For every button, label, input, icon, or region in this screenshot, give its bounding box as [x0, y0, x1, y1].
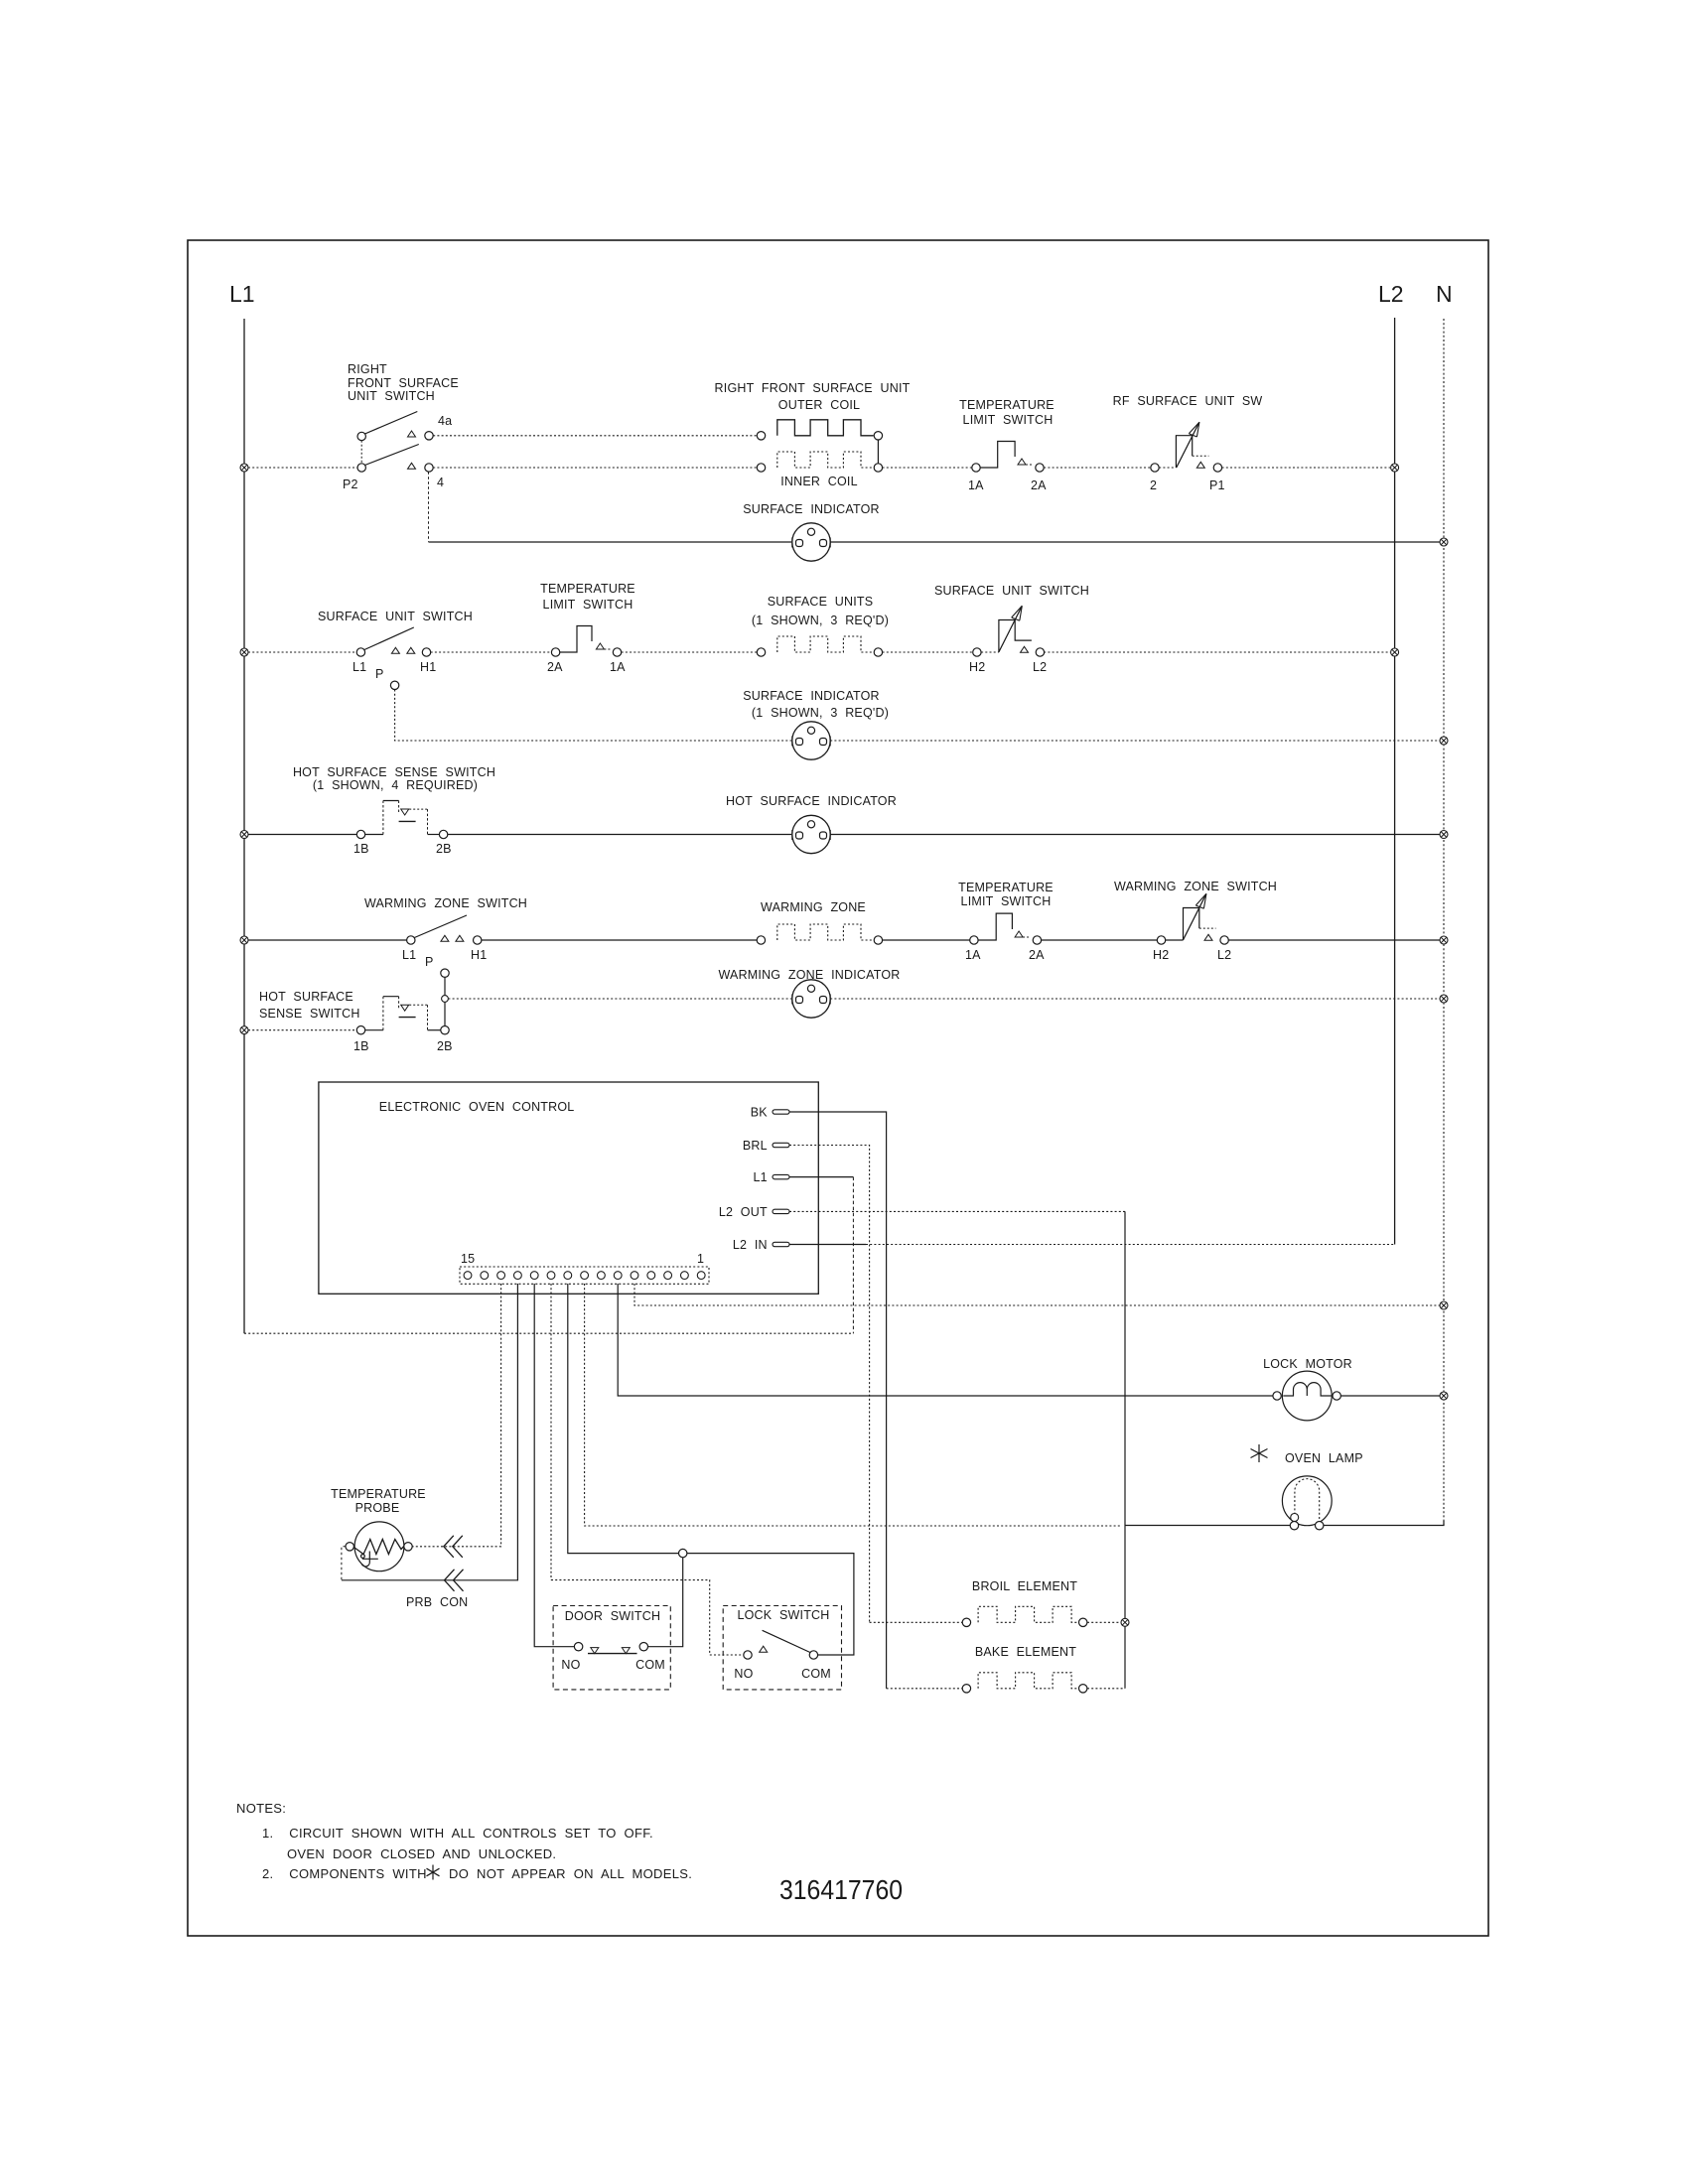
wire probe left leg: [342, 1547, 346, 1580]
svg-text:P: P: [375, 667, 384, 681]
symbol asterisk oven lamp: [1251, 1444, 1268, 1462]
junction N ind1: [1440, 538, 1448, 546]
wire BK net: [789, 1112, 887, 1689]
wire 2B to hot surface indicator: [448, 834, 791, 836]
wire H1 to warming zone coil: [482, 939, 757, 941]
svg-text:BK: BK: [751, 1106, 769, 1120]
svg-text:(1 SHOWN, 3 REQ'D): (1 SHOWN, 3 REQ'D): [752, 614, 889, 627]
svg-text:COM: COM: [801, 1667, 831, 1681]
switch temperature limit switch row2: [551, 626, 621, 657]
wire 4a to outer coil: [433, 435, 757, 437]
svg-text:RIGHT FRONT SURFACE UNIT: RIGHT FRONT SURFACE UNIT: [715, 381, 911, 395]
switch surface unit switch row2 left: [356, 627, 431, 690]
svg-text:FRONT SURFACE: FRONT SURFACE: [348, 376, 459, 390]
symbol asterisk note: [427, 1865, 440, 1880]
wire L1 bus elbow to EOC: [244, 1332, 853, 1334]
svg-text:N: N: [1436, 281, 1453, 307]
wire pin11 to temperature probe: [413, 1284, 501, 1547]
box electronic oven control: [319, 1082, 818, 1294]
switch lock switch: [744, 1630, 818, 1659]
svg-text:L2: L2: [1217, 948, 1231, 962]
svg-text:OVEN LAMP: OVEN LAMP: [1285, 1451, 1363, 1465]
connector strip P15: [460, 1267, 709, 1284]
svg-text:LIMIT SWITCH: LIMIT SWITCH: [961, 894, 1052, 908]
svg-text:TEMPERATURE: TEMPERATURE: [959, 398, 1055, 412]
svg-text:PROBE: PROBE: [355, 1501, 400, 1515]
junction N lock motor: [1440, 1392, 1448, 1400]
svg-text:H2: H2: [969, 660, 985, 674]
svg-text:WARMING ZONE: WARMING ZONE: [761, 900, 866, 914]
wire L1 bus: [243, 319, 245, 1333]
switch hot surface sense switch row5: [356, 997, 449, 1034]
wire L1 to 1B row5: [248, 1029, 356, 1031]
svg-text:1B: 1B: [353, 842, 369, 856]
svg-text:H1: H1: [471, 948, 487, 962]
svg-text:SURFACE INDICATOR: SURFACE INDICATOR: [743, 689, 880, 703]
svg-text:2A: 2A: [1029, 948, 1045, 962]
switch temperature limit switch row4: [970, 913, 1042, 944]
junction broil to L2 OUT: [1121, 1618, 1129, 1626]
svg-text:LOCK MOTOR: LOCK MOTOR: [1263, 1357, 1352, 1371]
svg-text:P2: P2: [343, 478, 358, 491]
svg-text:PRB CON: PRB CON: [406, 1595, 468, 1609]
svg-text:WARMING ZONE SWITCH: WARMING ZONE SWITCH: [1114, 880, 1277, 893]
svg-text:316417760: 316417760: [779, 1874, 903, 1905]
svg-text:L1: L1: [352, 660, 366, 674]
svg-text:TEMPERATURE: TEMPERATURE: [958, 881, 1054, 894]
wire inner coil to 1A: [883, 467, 972, 469]
lamp oven lamp: [1282, 1476, 1332, 1530]
wire oven lamp row left segment: [1125, 1525, 1290, 1527]
svg-text:OUTER COIL: OUTER COIL: [778, 398, 860, 412]
svg-text:SENSE SWITCH: SENSE SWITCH: [259, 1007, 360, 1021]
svg-text:UNIT SWITCH: UNIT SWITCH: [348, 389, 435, 403]
switch warming zone switch left: [407, 915, 482, 977]
svg-text:OVEN DOOR CLOSED AND UNLOCKED.: OVEN DOOR CLOSED AND UNLOCKED.: [287, 1846, 556, 1861]
svg-text:1: 1: [697, 1252, 704, 1266]
svg-text:L1: L1: [402, 948, 416, 962]
junction N row3: [1440, 831, 1448, 839]
svg-text:2B: 2B: [437, 1039, 453, 1053]
heater inner coil: [757, 464, 765, 472]
svg-text:HOT SURFACE: HOT SURFACE: [259, 990, 353, 1004]
heater broil element: [870, 1606, 1121, 1626]
junction L1 row1: [240, 464, 248, 472]
wire coil to 1A row4: [883, 939, 970, 941]
svg-text:SURFACE UNIT SWITCH: SURFACE UNIT SWITCH: [318, 610, 473, 623]
junction L2 row1: [1391, 464, 1399, 472]
wire pin13 to door switch NO: [534, 1284, 574, 1647]
svg-text:H2: H2: [1153, 948, 1169, 962]
switch door switch: [574, 1643, 647, 1654]
wire oven lamp row right to N corner: [1324, 1521, 1444, 1526]
svg-text:4: 4: [437, 476, 444, 489]
svg-text:DO NOT APPEAR ON ALL MODELS.: DO NOT APPEAR ON ALL MODELS.: [449, 1866, 692, 1881]
lamp surface indicator row1: [792, 523, 830, 561]
svg-text:2A: 2A: [547, 660, 563, 674]
svg-text:L2: L2: [1378, 281, 1404, 307]
wire L2 OUT net: [789, 1210, 1125, 1212]
svg-text:1B: 1B: [353, 1039, 369, 1053]
wire P to surface indicator row2: [395, 690, 791, 742]
wire 4 to inner coil: [433, 467, 757, 469]
motor lock motor: [1273, 1371, 1341, 1421]
border frame: [188, 240, 1488, 1936]
junction N ind2: [1440, 737, 1448, 745]
junction L1 row4: [240, 936, 248, 944]
wire coil to H2 row2: [883, 651, 973, 653]
svg-text:NO: NO: [734, 1667, 753, 1681]
wire N bus: [1443, 319, 1445, 1525]
wire coil join vertical: [877, 440, 879, 464]
svg-text:RIGHT: RIGHT: [348, 362, 387, 376]
svg-text:SURFACE UNITS: SURFACE UNITS: [768, 595, 874, 609]
junction warming zone indicator tap: [442, 996, 449, 1003]
wire BRL net: [789, 1146, 870, 1623]
svg-text:SURFACE UNIT SWITCH: SURFACE UNIT SWITCH: [934, 584, 1089, 598]
wire L1 to S1 P2: [248, 467, 357, 469]
svg-text:LOCK SWITCH: LOCK SWITCH: [737, 1608, 829, 1622]
switch warming zone switch right: [1157, 893, 1228, 944]
junction N ind4: [1440, 995, 1448, 1003]
connector PRB CON lower chevrons: [445, 1570, 464, 1591]
svg-text:NOTES:: NOTES:: [236, 1801, 286, 1816]
wire surface indicator row2 to N: [830, 740, 1440, 742]
svg-text:L1: L1: [229, 281, 255, 307]
switch surface unit switch row2 right: [973, 606, 1045, 656]
heater outer coil: [757, 432, 765, 440]
lamp hot surface indicator: [792, 815, 830, 853]
svg-text:2. COMPONENTS WITH: 2. COMPONENTS WITH: [262, 1866, 427, 1881]
svg-text:SURFACE INDICATOR: SURFACE INDICATOR: [743, 502, 880, 516]
wire pin9 to COM common: [568, 1284, 854, 1655]
svg-text:COM: COM: [635, 1658, 665, 1672]
svg-text:BROIL ELEMENT: BROIL ELEMENT: [972, 1579, 1077, 1593]
svg-text:RF SURFACE UNIT SW: RF SURFACE UNIT SW: [1113, 394, 1263, 408]
svg-text:1A: 1A: [965, 948, 981, 962]
svg-text:2B: 2B: [436, 842, 452, 856]
lamp surface indicator row2: [792, 722, 830, 759]
wire pin12 to probe return: [342, 1284, 518, 1580]
svg-text:L2: L2: [1033, 660, 1047, 674]
svg-text:P: P: [425, 955, 434, 969]
svg-text:WARMING ZONE SWITCH: WARMING ZONE SWITCH: [364, 896, 527, 910]
switch S1 right front surface unit switch: [357, 412, 433, 473]
junction L1 row2: [240, 648, 248, 656]
svg-text:ELECTRONIC OVEN CONTROL: ELECTRONIC OVEN CONTROL: [379, 1100, 575, 1114]
wire pin6 to lock motor: [618, 1284, 1273, 1396]
wire pin10 to lock switch NO: [551, 1284, 744, 1655]
svg-text:TEMPERATURE: TEMPERATURE: [331, 1487, 426, 1501]
wire L2 IN net: [789, 1244, 866, 1246]
svg-text:4a: 4a: [438, 414, 452, 428]
switch temperature limit switch row1: [972, 442, 1044, 473]
svg-text:2: 2: [1150, 478, 1157, 492]
wire 2A to H2 row4: [1042, 939, 1158, 941]
wire L1 to row2 switch: [248, 651, 356, 653]
svg-text:L2 OUT: L2 OUT: [719, 1205, 768, 1219]
wire pin8 to oven lamp row: [585, 1284, 1121, 1526]
svg-text:(1 SHOWN, 4 REQUIRED): (1 SHOWN, 4 REQUIRED): [313, 778, 478, 792]
svg-text:BRL: BRL: [743, 1139, 768, 1153]
wire L1 to 1B row3: [248, 834, 356, 836]
resistor temperature probe: [346, 1522, 412, 1571]
svg-text:HOT SURFACE INDICATOR: HOT SURFACE INDICATOR: [726, 794, 897, 808]
svg-text:15: 15: [461, 1252, 475, 1266]
svg-text:INNER COIL: INNER COIL: [780, 475, 858, 488]
switch hot surface sense switch row3: [356, 801, 448, 839]
junction N row4: [1440, 936, 1448, 944]
wire L2 bus: [1394, 318, 1396, 1245]
wire pin5 to N: [634, 1284, 1440, 1305]
svg-text:(1 SHOWN, 3 REQ'D): (1 SHOWN, 3 REQ'D): [752, 706, 889, 720]
svg-text:L2 IN: L2 IN: [733, 1238, 768, 1252]
wire warming zone indicator to N: [830, 998, 1440, 1000]
wire lock motor to N: [1340, 1395, 1440, 1397]
heater bake element: [887, 1673, 1125, 1693]
wire L1 to warming zone switch: [248, 939, 407, 941]
wire L1 net to EOC: [789, 1176, 853, 1178]
svg-text:LIMIT SWITCH: LIMIT SWITCH: [963, 413, 1054, 427]
junction L2 row2: [1391, 648, 1399, 656]
svg-text:DOOR SWITCH: DOOR SWITCH: [565, 1609, 660, 1623]
junction door switch COM tap: [679, 1549, 687, 1557]
wire tap to warming zone indicator: [448, 998, 791, 1000]
svg-text:1A: 1A: [968, 478, 984, 492]
heater warming zone coil: [757, 936, 765, 944]
svg-text:1. CIRCUIT SHOWN WITH ALL CON: 1. CIRCUIT SHOWN WITH ALL CONTROLS SET T…: [262, 1826, 653, 1841]
lamp warming zone indicator: [792, 980, 830, 1018]
wire H1 to 2A row2: [431, 651, 552, 653]
svg-text:BAKE ELEMENT: BAKE ELEMENT: [975, 1645, 1076, 1659]
svg-text:2A: 2A: [1031, 478, 1047, 492]
wire 4 to surface indicator: [428, 472, 430, 542]
wire L2 terminal to L2 bus: [1044, 651, 1390, 653]
heater surface units coil: [757, 648, 765, 656]
connector PRB CON upper chevrons: [444, 1536, 463, 1558]
svg-text:L1: L1: [753, 1170, 767, 1184]
junction L1 row3: [240, 831, 248, 839]
wire 1A to surface units coil: [622, 651, 758, 653]
wire tap down to door COM: [648, 1558, 683, 1647]
svg-text:H1: H1: [420, 660, 436, 674]
wire hot surface indicator to N: [830, 834, 1440, 836]
svg-text:LIMIT SWITCH: LIMIT SWITCH: [543, 598, 633, 612]
wire P row4 down to indicator row: [444, 977, 446, 1025]
svg-text:NO: NO: [561, 1658, 580, 1672]
switch RF surface unit switch: [1151, 422, 1222, 472]
junction N pin5: [1440, 1301, 1448, 1309]
svg-text:1A: 1A: [610, 660, 626, 674]
svg-text:HOT SURFACE SENSE SWITCH: HOT SURFACE SENSE SWITCH: [293, 765, 495, 779]
wire L2 terminal row4 to N: [1228, 939, 1440, 941]
svg-text:P1: P1: [1209, 478, 1225, 492]
wire P1 to L2: [1222, 467, 1390, 469]
svg-text:TEMPERATURE: TEMPERATURE: [540, 582, 635, 596]
junction L1 row5: [240, 1026, 248, 1034]
wire 2A to 2: [1044, 467, 1151, 469]
box lock switch: [723, 1606, 841, 1690]
box door switch: [553, 1606, 670, 1690]
wire surface indicator to N: [830, 541, 1440, 543]
